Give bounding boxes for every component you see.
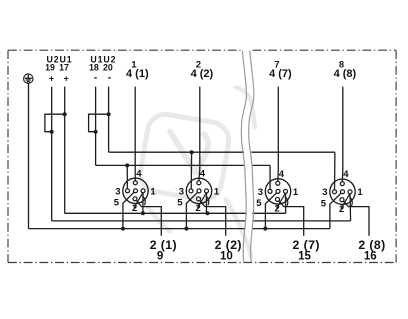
bus wire from terminal 18 (0V rail lower)	[96, 164, 271, 166]
wire pin 5 of X3 to earth bus	[265, 191, 278, 228]
svg-text:5: 5	[114, 197, 120, 208]
pin 4 of X2	[197, 181, 201, 185]
pin 4 of X4	[340, 182, 344, 186]
wire pin 2 of X3 to bottom terminal	[278, 199, 304, 235]
wire pin 1 of X1 to +24V rail	[142, 191, 144, 214]
junction jumper to terminal 17	[63, 112, 67, 116]
wire terminal 17	[64, 87, 66, 214]
pin 2 of X3	[276, 197, 280, 201]
junction X1 pin 3 on 0V rail	[125, 163, 129, 167]
wire pin 5 of X4 to earth bus	[330, 192, 343, 229]
bus wire from terminal 19 (+24V rail lower)	[52, 220, 351, 222]
pin 3 of X1	[126, 189, 130, 193]
junction X2 pin 3 on 0V rail	[190, 150, 194, 154]
wire terminal 19	[51, 87, 53, 221]
wire 0V rail to pin 3 of X4	[334, 152, 336, 192]
coding notch of X2	[206, 196, 209, 206]
svg-text:-: -	[108, 72, 112, 84]
svg-text:5: 5	[256, 198, 262, 209]
M12 socket X1	[114, 87, 161, 236]
svg-text:3: 3	[322, 187, 327, 198]
svg-text:4 (7): 4 (7)	[269, 68, 292, 80]
svg-text:4: 4	[136, 168, 142, 179]
coding slash of X2	[198, 194, 206, 209]
wire 0V rail to pin 3 of X1	[126, 165, 128, 190]
wire pin 5 of X2 to earth bus	[186, 191, 199, 229]
wire signal terminal to pin 4 of X3	[277, 87, 280, 184]
wire pin 2 of X1 to bottom terminal	[135, 199, 161, 236]
junction X3 pin 5 on earth bus	[263, 227, 267, 231]
svg-text:10: 10	[220, 251, 233, 263]
coding slash of X4	[341, 194, 349, 209]
svg-text:2: 2	[132, 203, 137, 214]
coding notch of X1	[142, 196, 145, 206]
coding notch of X4	[349, 197, 352, 207]
pin 1 of X2	[205, 189, 209, 193]
enclosure border top	[8, 49, 396, 51]
earth bus wire	[29, 228, 330, 230]
wire signal terminal to pin 4 of X1	[134, 87, 136, 183]
bus wire from terminal 20 (0V rail upper)	[109, 151, 335, 153]
svg-text:9: 9	[157, 251, 163, 263]
svg-text:3: 3	[115, 186, 120, 197]
pin 3 of X2	[189, 189, 193, 193]
pin 3 of X4	[333, 190, 337, 194]
pin 4 of X1	[133, 181, 137, 185]
svg-text:2 (1): 2 (1)	[150, 238, 177, 252]
enclosure border bottom	[8, 262, 396, 264]
coding notch of X3	[285, 196, 288, 206]
pin 4 of X3	[276, 181, 280, 185]
wire terminal 18	[95, 87, 97, 166]
svg-text:3: 3	[179, 186, 184, 197]
wire pin 5 of X1 to earth bus	[123, 191, 136, 229]
watermark logo	[137, 88, 255, 257]
wire terminal 20	[108, 87, 110, 153]
svg-text:4: 4	[279, 169, 285, 180]
junction jumper to terminal 20	[107, 112, 111, 116]
panel break line left	[241, 51, 246, 263]
wire pin 1 of X3 to +24V rail	[285, 191, 287, 213]
pin 5 of X1	[134, 189, 138, 193]
wire from PE symbol to earth bus	[28, 84, 30, 229]
jumper bracket 19-17	[45, 114, 65, 132]
svg-text:-: -	[94, 72, 98, 84]
svg-text:16: 16	[364, 251, 377, 263]
wire pin 1 of X4 to +24V rail	[349, 192, 352, 221]
wire pin 2 of X2 to bottom terminal	[199, 199, 226, 236]
bus wire from terminal 17 (+24V rail upper)	[65, 212, 286, 214]
wire signal terminal to pin 4 of X2	[199, 87, 200, 183]
socket X1 body circle	[123, 178, 148, 203]
svg-text:+: +	[49, 74, 54, 84]
wire pin 1 of X2 to +24V rail	[205, 191, 207, 213]
coding slash of X1	[134, 193, 142, 208]
junction X1 pin 5 on earth bus	[121, 227, 125, 231]
wire 0V rail to pin 3 of X2	[190, 152, 192, 191]
pin 3 of X3	[268, 189, 272, 193]
enclosure border left	[7, 50, 9, 262]
svg-text:1: 1	[357, 187, 363, 198]
svg-text:5: 5	[321, 198, 327, 209]
svg-text:4 (2): 4 (2)	[191, 68, 214, 80]
protective earth symbol	[24, 74, 33, 83]
wire 0V rail to pin 3 of X3	[269, 165, 271, 191]
svg-text:4 (1): 4 (1)	[126, 68, 149, 80]
svg-text:4 (8): 4 (8)	[334, 68, 357, 80]
M12 socket X4	[321, 87, 369, 236]
junction X1 pin 1 on +24V rail	[141, 211, 145, 215]
jumper bracket 18-20	[89, 114, 109, 132]
pin 5 of X3	[276, 189, 280, 193]
pin 1 of X1	[141, 189, 145, 193]
pin 5 of X4	[341, 190, 345, 194]
svg-text:19: 19	[45, 62, 55, 72]
coding slash of X3	[277, 194, 285, 209]
svg-text:17: 17	[59, 62, 69, 72]
svg-text:4: 4	[343, 169, 349, 180]
pin 1 of X3	[284, 189, 288, 193]
svg-text:15: 15	[298, 251, 311, 263]
socket X4 body circle	[330, 179, 355, 204]
wire pin 2 of X4 to bottom terminal	[342, 200, 369, 236]
pin 2 of X2	[197, 197, 201, 201]
svg-text:1: 1	[214, 186, 220, 197]
M12 socket X3	[256, 87, 303, 236]
socket X3 body circle	[265, 179, 290, 204]
svg-text:5: 5	[177, 198, 183, 209]
junction X2 pin 1 on +24V rail	[205, 211, 209, 215]
svg-text:1: 1	[150, 186, 156, 197]
enclosure border right	[395, 50, 397, 262]
pin 2 of X1	[133, 197, 137, 201]
svg-text:3: 3	[258, 187, 263, 198]
svg-text:2: 2	[339, 204, 344, 215]
svg-text:1: 1	[293, 187, 299, 198]
svg-text:2: 2	[195, 203, 200, 214]
wire signal terminal to pin 4 of X4	[341, 87, 344, 184]
panel break line right	[249, 51, 254, 263]
svg-text:4: 4	[200, 168, 206, 179]
pin 1 of X4	[348, 190, 352, 194]
pin 5 of X2	[197, 189, 201, 193]
pin 2 of X4	[340, 198, 344, 202]
junction jumper to terminal 19	[50, 130, 54, 134]
svg-text:+: +	[64, 74, 69, 84]
socket X2 body circle	[186, 178, 211, 203]
M12 socket X2	[177, 87, 225, 236]
junction jumper to terminal 18	[94, 130, 98, 134]
junction X2 pin 5 on earth bus	[184, 227, 188, 231]
svg-text:2: 2	[274, 204, 279, 215]
